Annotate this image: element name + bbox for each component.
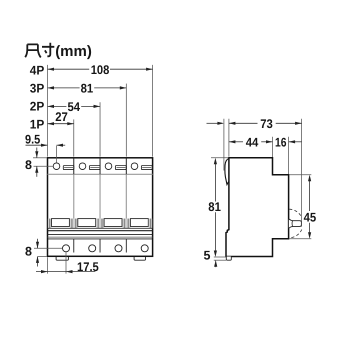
toggle hatched divider right edge [149, 219, 152, 228]
arrow 1P right [67, 122, 74, 125]
svg-text:4P: 4P [30, 64, 45, 78]
extension bottom circle down [65, 252, 67, 274]
clamp terminal pole4 [141, 166, 152, 170]
svg-text:5: 5 [204, 248, 211, 262]
extension line 4P right edge [152, 65, 154, 157]
top terminal screw circle pole2 [79, 163, 86, 170]
mounting foot right [134, 257, 145, 260]
extension bump top right [289, 174, 311, 176]
arrow 17.5 right [66, 270, 73, 273]
dimension line 8 bottom [37, 239, 39, 248]
svg-text:(mm): (mm) [55, 43, 92, 60]
extension front face [228, 119, 230, 157]
extension left edge bottom [47, 257, 49, 273]
arrow 8 top down [35, 151, 38, 158]
extension toggle tip [223, 119, 225, 171]
dimension line 1P 27 [48, 123, 74, 125]
svg-text:44: 44 [246, 136, 259, 150]
bottom strip top line [48, 238, 153, 240]
svg-text:45: 45 [304, 211, 317, 225]
extension step 44 [272, 137, 274, 157]
extension top edge left side [211, 157, 228, 159]
extension bump 16 [288, 137, 290, 174]
arrow 17.5 left [41, 270, 48, 273]
extension below 5 [215, 260, 217, 267]
arrow 44 left [229, 140, 236, 143]
toggle row base line [48, 227, 153, 229]
arrow 81 bottom [214, 251, 217, 258]
clamp terminal pole3 [115, 166, 126, 170]
svg-text:2P: 2P [30, 100, 45, 114]
arrow 45 bottom [308, 232, 311, 239]
dimension line 44 [229, 141, 243, 143]
arrow 9.5 right [57, 144, 64, 147]
extension circle centre left [34, 165, 54, 167]
svg-text:81: 81 [81, 82, 94, 96]
toggle hatched divider 2 [96, 219, 104, 228]
extension back 73 [301, 119, 303, 227]
top terminal screw circle pole4 [131, 163, 138, 170]
arrow 8 bottom up [36, 256, 39, 263]
toggle paddle pole2 [78, 219, 96, 227]
arrow 9.5 left [41, 144, 48, 147]
extension bump bottom right [289, 238, 311, 240]
dimension line 3P 81 [48, 87, 80, 89]
face band line 1 [48, 230, 153, 232]
arrow 73 right [295, 122, 302, 125]
extension line 9.5 circle [56, 146, 58, 163]
face band line 2 [48, 233, 153, 235]
extension bottom edge left [38, 255, 47, 257]
pole separator 1 [73, 158, 75, 175]
title 寸 (drawn strokes) [42, 43, 54, 57]
clamp terminal pole2 [89, 166, 100, 170]
arrow 8 bottom down [36, 242, 39, 249]
body outline front view [48, 158, 153, 256]
toggle paddle pole3 [104, 219, 122, 227]
arrow 3P right [120, 86, 127, 89]
svg-text:54: 54 [68, 100, 81, 114]
extension line 1P [73, 119, 75, 156]
svg-text:108: 108 [91, 63, 110, 77]
extension foot top left [214, 256, 226, 258]
face band line 3 [48, 236, 153, 238]
svg-text:9.5: 9.5 [25, 132, 40, 146]
title 尺 (drawn strokes) [25, 44, 41, 57]
bottom screw circle pole2 [89, 245, 96, 252]
pole separator 2 [99, 158, 101, 175]
side mounting foot [226, 257, 231, 261]
DIN rail clip inner edge [291, 221, 294, 227]
toggle paddle pole4 [130, 219, 148, 227]
arrow 73 outside at toggle tip [217, 122, 224, 125]
arrow 2P right [94, 105, 101, 108]
dimension line 9.5 [26, 144, 48, 146]
arrow 2P left [48, 105, 55, 108]
svg-text:3P: 3P [30, 81, 45, 95]
toggle hatched divider 3 [123, 219, 131, 228]
dimension line 2P 54 [48, 105, 67, 107]
dimension line 73 outside tail [207, 122, 223, 124]
toggle hatched divider 1 [70, 219, 78, 228]
top terminal screw circle pole1 [53, 163, 60, 170]
mounting foot left [56, 257, 68, 260]
arrow 73 left [229, 122, 236, 125]
arrow 8 top up [35, 166, 38, 173]
arrow 44 right [266, 140, 273, 143]
svg-text:8: 8 [25, 158, 32, 172]
svg-text:81: 81 [208, 200, 221, 214]
arrow 81 top [214, 158, 217, 165]
arrow 1P left [48, 122, 55, 125]
arrow 3P left [48, 86, 55, 89]
terminal strip bottom line [48, 173, 153, 175]
clamp terminal pole1 [63, 166, 74, 170]
extension line 3P [125, 84, 127, 157]
extension foot bottom left [214, 259, 226, 261]
dimension line 4P 108 [48, 68, 90, 70]
arrow 16 outside [289, 140, 296, 143]
svg-text:1P: 1P [30, 118, 45, 132]
extension line left edge top [47, 65, 49, 157]
svg-text:27: 27 [55, 110, 68, 124]
separator stubs in bottom strip [74, 239, 127, 253]
extension bottom circle centre left [34, 247, 62, 249]
toggle lever side profile [225, 159, 229, 185]
dimension line 8 top [36, 148, 38, 158]
DIN rail dashed circle [289, 209, 302, 238]
arrow 5 bottom outside [214, 260, 217, 267]
toggle hatched divider left edge [48, 219, 52, 228]
arrow 45 top [308, 175, 311, 182]
bottom screw circle pole1 [63, 245, 70, 252]
bottom screw circle pole3 [115, 245, 122, 252]
dimension line 17.5 [36, 271, 95, 273]
dimension line 16 tail [289, 141, 302, 143]
svg-text:17.5: 17.5 [77, 260, 99, 274]
dimension line 45 [309, 177, 311, 211]
side body outline [226, 158, 289, 257]
svg-text:73: 73 [260, 117, 273, 131]
dimension line 81 [214, 160, 216, 202]
pole separator 3 [125, 158, 127, 175]
extension line 2P [99, 102, 101, 156]
svg-text:8: 8 [25, 245, 32, 259]
svg-text:16: 16 [275, 136, 287, 150]
extension top edge left [33, 157, 47, 159]
DIN rail clip tab [289, 219, 302, 228]
bottom screw circle pole4 [141, 245, 148, 252]
arrow 4P right [146, 68, 153, 71]
dimension line 73 [229, 122, 258, 124]
top terminal screw circle pole3 [105, 163, 112, 170]
toggle paddle pole1 [52, 219, 70, 227]
arrow 4P left [48, 68, 55, 71]
